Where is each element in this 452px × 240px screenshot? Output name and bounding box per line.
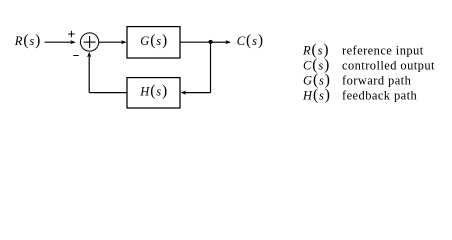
wire G(s) to output node <box>181 41 212 43</box>
wire riser up to summing junction with up arrowhead <box>87 52 91 93</box>
svg-text:G(s): G(s) <box>140 32 168 49</box>
svg-text:H(s): H(s) <box>302 86 331 103</box>
legend row R(s) reference input <box>302 41 424 58</box>
wire junction to C(s) with arrowhead <box>211 40 231 44</box>
summing junction <box>80 33 98 51</box>
svg-text:reference input: reference input <box>342 43 424 57</box>
node C(s) controlled output label <box>237 32 264 49</box>
svg-text:controlled output: controlled output <box>342 58 435 72</box>
block G(s) forward path <box>127 27 180 58</box>
minus sign at feedback input <box>73 55 79 57</box>
node takeoff junction dot <box>209 40 213 44</box>
wire H(s) to left vertical riser <box>89 92 127 94</box>
legend row G(s) forward path <box>303 71 412 88</box>
svg-text:forward path: forward path <box>342 73 412 87</box>
plus sign at summing junction input <box>68 31 74 37</box>
wire junction down to feedback row <box>210 42 212 92</box>
svg-text:H(s): H(s) <box>139 83 168 100</box>
node R(s) reference input label <box>14 32 41 49</box>
wire feedback row into H(s) with left arrowhead <box>181 91 211 95</box>
block H(s) feedback path <box>127 78 180 108</box>
svg-text:C(s): C(s) <box>237 32 264 49</box>
legend row H(s) feedback path <box>302 86 418 103</box>
wire summing junction to G(s) with arrowhead <box>99 40 127 44</box>
svg-text:R(s): R(s) <box>14 32 41 49</box>
svg-text:feedback path: feedback path <box>342 88 418 102</box>
legend row C(s) controlled output <box>303 56 435 73</box>
wire R(s) to summing junction with arrowhead <box>45 40 76 44</box>
